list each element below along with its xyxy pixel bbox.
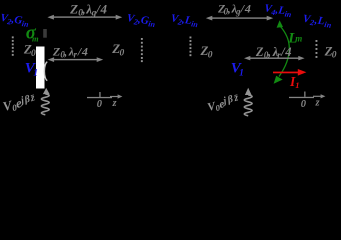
svg-text:V1: V1	[231, 61, 244, 79]
svg-text:Z0,λg/4: Z0,λg/4	[217, 2, 251, 17]
svg-text:z: z	[315, 98, 321, 109]
reference plane dots (left panel, far left)	[12, 36, 14, 55]
svg-text:Z0: Z0	[111, 41, 124, 58]
svg-text:V0ejβz̄: V0ejβz̄	[1, 92, 38, 115]
membrane arc at mirror (left panel)	[44, 62, 47, 81]
wire: top quarter-wave line arrow (right panel)	[206, 16, 273, 21]
svg-text:I1: I1	[289, 74, 300, 90]
incident wave squiggle arrow (right panel)	[244, 95, 252, 116]
svg-text:Z0,λg/4: Z0,λg/4	[69, 1, 107, 18]
svg-text:Z0,λr/4: Z0,λr/4	[52, 44, 88, 59]
incident wave squiggle arrow (left panel)	[41, 94, 49, 115]
reference plane dots (right panel, left)	[190, 37, 192, 57]
svg-text:m: m	[295, 33, 302, 43]
svg-text:Z0,λr/4: Z0,λr/4	[255, 45, 292, 60]
svg-text:Z0: Z0	[23, 42, 36, 59]
svg-text:Z0: Z0	[200, 43, 213, 60]
axis z (right panel)	[289, 92, 314, 99]
svg-text:0: 0	[301, 99, 307, 110]
current I1 red arrow (right panel)	[273, 72, 299, 74]
svg-text:V2,Gin: V2,Gin	[126, 12, 157, 29]
reference plane dots (left panel, right)	[141, 38, 143, 62]
wire: lower quarter-wave arrow (left panel)	[48, 57, 104, 62]
svg-text:V2,Lin: V2,Lin	[302, 13, 333, 30]
inductor current green curved arrow (right panel)	[279, 27, 289, 77]
svg-text:V2,Lin: V2,Lin	[170, 12, 200, 29]
mirror plate upper dark bar	[43, 29, 47, 38]
axis z (left panel)	[87, 92, 112, 98]
mirror: white bar (left panel)	[36, 47, 45, 89]
svg-text:z: z	[112, 98, 118, 109]
svg-text:0: 0	[97, 99, 103, 110]
svg-text:V0ejβz̄: V0ejβz̄	[206, 92, 242, 115]
svg-text:V1: V1	[25, 61, 38, 79]
svg-text:Z0: Z0	[324, 44, 337, 61]
reference plane dots (right panel, right)	[316, 40, 318, 58]
wire: lower quarter-wave arrow (right panel)	[244, 56, 305, 61]
wire: top quarter-wave line arrow (left panel)	[47, 15, 122, 20]
svg-text:m: m	[32, 34, 39, 44]
